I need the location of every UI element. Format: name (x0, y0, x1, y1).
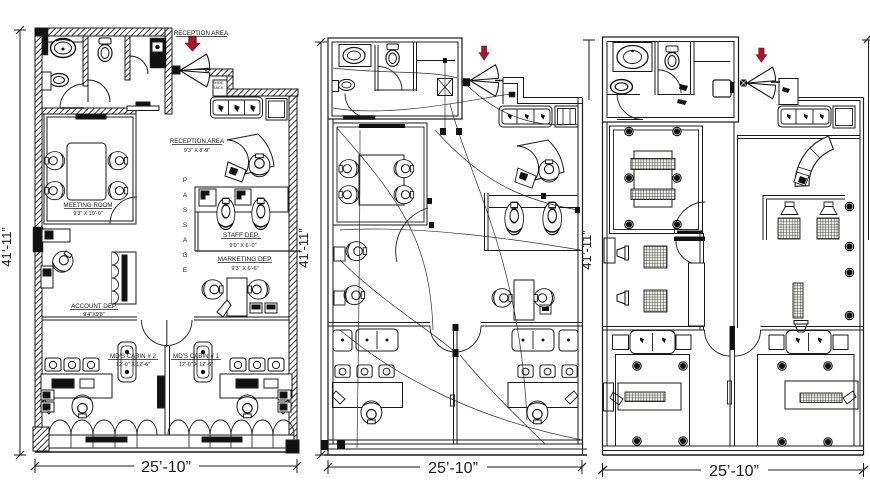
svg-text:9'0" X 6'-0": 9'0" X 6'-0" (229, 243, 256, 249)
svg-text:A: A (183, 192, 188, 199)
svg-text:ACCOUNT DEP.: ACCOUNT DEP. (71, 303, 117, 310)
svg-text:25’-10”: 25’-10” (709, 463, 759, 480)
svg-text:9'3" X 10'-0": 9'3" X 10'-0" (73, 211, 102, 217)
svg-text:41’-11”: 41’-11” (296, 228, 311, 268)
svg-text:S: S (183, 222, 188, 229)
svg-text:41’-11”: 41’-11” (0, 227, 14, 267)
svg-text:RECEPTION AREA: RECEPTION AREA (174, 30, 229, 37)
svg-text:MD'S CABIN # 2: MD'S CABIN # 2 (110, 353, 156, 360)
svg-text:MEETING ROOM: MEETING ROOM (63, 202, 112, 209)
svg-text:9'4"X9'8": 9'4"X9'8" (83, 312, 105, 318)
svg-text:9'3" X 8'-9": 9'3" X 8'-9" (184, 148, 210, 154)
svg-text:S: S (183, 207, 188, 214)
svg-text:12'-0" X 12'-6": 12'-0" X 12'-6" (179, 362, 213, 368)
svg-text:12'-0" X 12'-6": 12'-0" X 12'-6" (116, 362, 150, 368)
svg-text:9'3" X 6'-6": 9'3" X 6'-6" (231, 266, 258, 272)
svg-text:41’-11”: 41’-11” (579, 230, 594, 270)
svg-text:25’-10”: 25’-10” (141, 459, 191, 476)
svg-text:RACK: RACK (212, 85, 223, 90)
svg-text:E: E (183, 267, 188, 274)
svg-text:RECEPTION AREA: RECEPTION AREA (170, 138, 225, 145)
svg-text:G: G (182, 252, 187, 259)
svg-text:P: P (183, 177, 187, 184)
svg-text:MD'S CABIN # 1: MD'S CABIN # 1 (173, 353, 219, 360)
svg-text:STAFF DEP.: STAFF DEP. (223, 232, 259, 239)
svg-text:25’-10”: 25’-10” (428, 460, 478, 477)
svg-text:A: A (183, 237, 188, 244)
svg-text:MARKETING DEP.: MARKETING DEP. (218, 256, 273, 263)
